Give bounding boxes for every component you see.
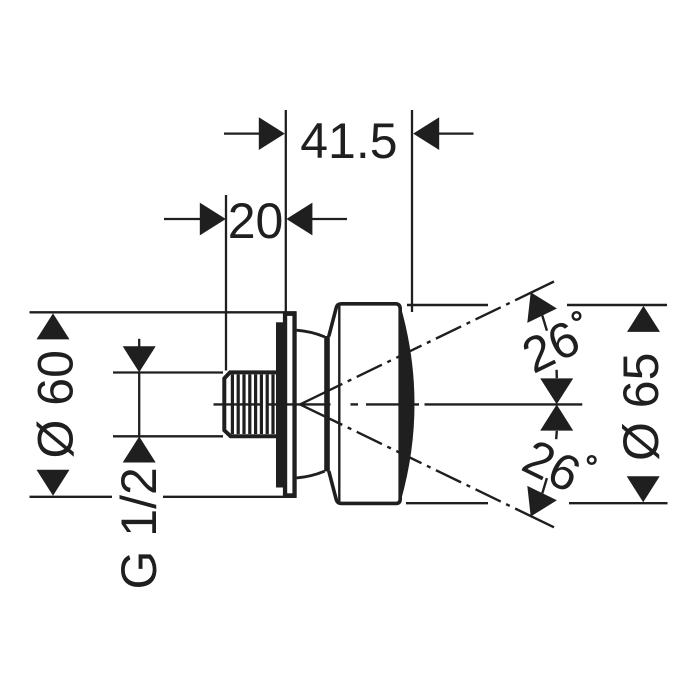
dia65 top arrow [627,306,660,332]
G1/2 up arrow [123,437,156,463]
svg-text:Ø 65: Ø 65 [613,353,669,461]
dia60 bottom arrow [37,470,70,496]
thread hatch bars [232,375,273,435]
svg-text:41.5: 41.5 [300,113,397,169]
G1/2 down arrow [123,346,156,372]
upper angle center tail [555,370,558,378]
cone-cylinder junction edge [338,306,340,502]
G1/2 upper tail [138,339,140,348]
dim 20 right tail [312,218,347,220]
svg-text:G 1/2: G 1/2 [111,467,167,589]
dia60 top arrow [37,313,70,339]
back flange plate (filled) [276,322,284,487]
upper angled centerline 26deg [300,282,554,405]
horizontal centerline segments [214,403,583,405]
thread body G1/2 outline [224,372,277,436]
dim 41.5 left tail [224,132,260,134]
dim 41.5 left arrow [259,117,285,150]
svg-text:20: 20 [228,193,284,249]
G1/2 bottom extension line [113,435,223,437]
degree ring bottom [588,456,596,464]
G1/2 mid dim line [138,373,140,437]
escutcheon plate dia60 [285,314,295,496]
dim 20 right arrow [286,203,312,236]
lower angle center tail [555,431,558,439]
body outline [329,304,400,504]
extension line left of 41.5 / right of 20 [285,110,287,312]
lower angled centerline 26deg [300,404,554,527]
upper angle arrow at centerline [540,378,573,404]
spray face lens (filled) [400,309,413,500]
dim 41.5 right arrow [413,117,439,150]
neck end / cone start circle edges (merged band) [324,336,330,471]
neck top curve [297,330,325,337]
dia65 top extension line (gap at angle line) [407,304,488,306]
upper angle arc tail [542,316,547,331]
G1/2 top extension line [113,371,223,373]
dia65 bottom extension line (gap at angle line) [406,502,488,504]
extension line right of 41.5 [411,110,413,312]
extension line left of 20 [225,195,227,371]
dia65 bottom arrow [627,476,660,502]
neck bottom curve [297,471,325,478]
svg-text:Ø 60: Ø 60 [27,350,83,458]
dia60 top extension line [30,311,297,313]
dim 20 left arrow [200,203,226,236]
degree ring top [573,312,581,320]
lower angle arrow at centerline [540,405,573,431]
dia60 bottom extension line (two segments, gap for G1/2 text) [30,496,113,498]
lower angle arc arrow at line [527,486,557,517]
lower angle arc tail [542,478,547,493]
dim 20 left tail [164,218,200,220]
upper angle arc arrow at line [527,292,557,323]
dim 41.5 right tail [439,132,474,134]
